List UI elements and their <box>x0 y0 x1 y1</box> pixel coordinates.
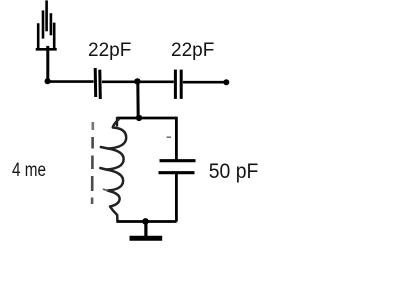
ground <box>130 236 163 241</box>
wire antenna stem down to node A <box>46 46 49 81</box>
inductor L1 (hand-drawn coil) <box>100 120 126 221</box>
svg-text:22pF: 22pF <box>88 40 131 61</box>
wire ground stem <box>144 222 147 237</box>
wire tank top-left corner stub <box>116 117 118 127</box>
capacitor C2 22pF <box>175 70 181 99</box>
node B (mid junction) <box>134 78 140 84</box>
stray mark near C3 <box>167 136 172 138</box>
wire tank top horizontal <box>117 117 177 120</box>
capacitor C3 50 pF <box>159 161 196 173</box>
wire node A to C1 <box>48 80 94 83</box>
wire node B to C2 <box>138 81 174 84</box>
wire tank bottom horizontal <box>116 220 176 223</box>
svg-text:50 pF: 50 pF <box>209 159 258 183</box>
wire C2 to output terminal <box>183 81 227 84</box>
node D (tank top junction) <box>136 115 142 121</box>
wire node B down to tank node D <box>136 81 139 118</box>
capacitor C1 22pF <box>95 68 100 99</box>
wire tank right vertical upper <box>175 117 178 160</box>
node C (output terminal dot) <box>223 79 229 85</box>
node E (ground junction) <box>142 218 149 225</box>
antenna <box>37 2 55 50</box>
wire C1 to node B <box>102 81 138 84</box>
core (dashed line) <box>91 122 94 204</box>
svg-text:22pF: 22pF <box>171 40 214 61</box>
node A (left junction) <box>45 78 51 84</box>
svg-text:4 me: 4 me <box>12 159 46 181</box>
wire tank right vertical lower <box>175 174 178 222</box>
